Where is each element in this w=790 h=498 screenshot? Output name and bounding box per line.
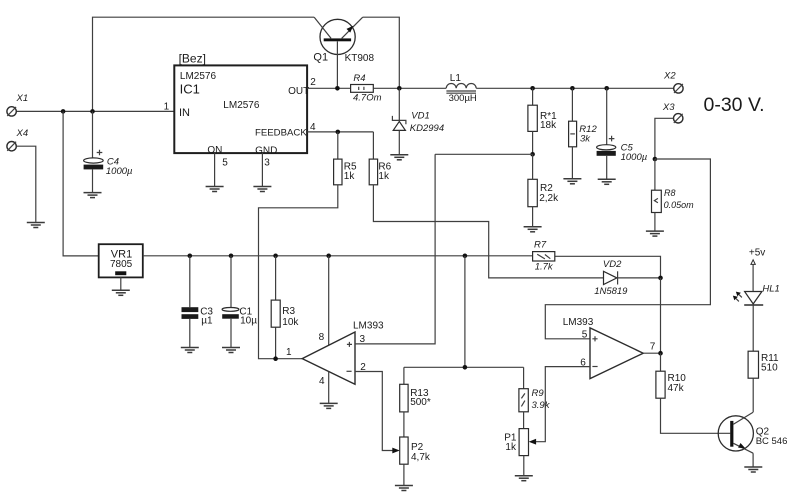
capacitor C3 [182, 256, 199, 347]
node R13 R9 line riser junction [463, 365, 468, 370]
op-amp U1B LM393 right [590, 328, 643, 379]
minus sign right op-amp pin6 [592, 366, 597, 368]
resistor R8 [652, 159, 662, 231]
resistor R12 [569, 88, 577, 178]
label C1 [239, 306, 257, 326]
svg-text:2: 2 [310, 77, 316, 88]
node R5 on feedback line [336, 130, 341, 135]
potentiometer P1 [519, 429, 528, 476]
svg-text:1k: 1k [344, 171, 356, 182]
svg-text:1k: 1k [378, 171, 390, 182]
node Q1 base on OUT line [335, 86, 340, 91]
wire pin2 to P2 wiper [355, 372, 400, 454]
resistor R2 [528, 154, 537, 226]
svg-text:LM2576: LM2576 [180, 71, 217, 82]
ground C5 [598, 179, 616, 184]
svg-text:1000µ: 1000µ [106, 166, 133, 177]
wire R5 bottom to comparator output pin1 [259, 185, 338, 359]
terminal X3 [674, 114, 683, 123]
svg-text:4: 4 [310, 122, 316, 133]
label R10 [668, 373, 687, 394]
wire L1 to X2 terminal [476, 87, 674, 89]
ground X4 [27, 223, 45, 228]
inductor L1 [446, 84, 476, 94]
svg-text:BC 546: BC 546 [756, 436, 788, 447]
svg-text:3k: 3k [580, 133, 591, 144]
wire X1 input line to IC1 IN pin [16, 110, 174, 112]
ground C3 [181, 348, 199, 353]
node R3 on rail [273, 254, 278, 259]
LED HL1 [733, 292, 763, 306]
ground VR1 [112, 290, 130, 295]
svg-text:IC1: IC1 [180, 81, 200, 96]
ground P2 [395, 486, 413, 491]
svg-text:VD2: VD2 [603, 259, 622, 270]
minus sign left op-amp pin2 [347, 370, 352, 372]
node C5 top [604, 86, 609, 91]
svg-text:X3: X3 [662, 102, 675, 113]
label C3 [200, 307, 213, 327]
capacitor C1 [222, 256, 239, 347]
wire divider junction to comparator pin3 riser [435, 153, 532, 155]
svg-text:4,7k: 4,7k [411, 452, 431, 463]
svg-text:IN: IN [179, 107, 190, 119]
svg-text:300µH: 300µH [449, 93, 477, 104]
ground R2 [524, 227, 542, 232]
svg-text:FEEDBACK: FEEDBACK [255, 128, 307, 139]
svg-text:1: 1 [286, 347, 292, 358]
transistor Q2 [718, 412, 753, 466]
wire X3 to R8 node [655, 118, 674, 159]
svg-text:4: 4 [319, 376, 325, 387]
op-amp U1A LM393 left [302, 332, 355, 384]
ground R12 [563, 179, 581, 184]
svg-text:4.7Om: 4.7Om [353, 92, 382, 103]
terminal X2 [674, 84, 683, 93]
node X1-VR1 junction [61, 109, 66, 114]
svg-text:5: 5 [222, 158, 228, 169]
svg-text:1k: 1k [505, 442, 517, 453]
wire pin4 to ground [328, 372, 330, 403]
ground P1 [515, 476, 533, 481]
node pin7 R10 junction [658, 351, 663, 356]
svg-text:KD2994: KD2994 [410, 123, 444, 134]
diode VD2 [604, 271, 661, 284]
node R13 riser on rail [463, 254, 468, 259]
svg-text:510: 510 [761, 363, 778, 374]
label R6 [378, 162, 391, 183]
resistor R3 [271, 256, 280, 359]
label P2 [411, 442, 431, 463]
power +5v arrow [751, 260, 755, 292]
diode VD1 [392, 88, 406, 154]
node X1-C4-rail junction [90, 109, 95, 114]
wire X4 to ground [16, 146, 36, 222]
svg-text:7: 7 [650, 341, 656, 352]
capacitor C4 [84, 111, 104, 192]
svg-text:1N5819: 1N5819 [594, 286, 628, 297]
node VD1 top junction [397, 86, 402, 91]
capacitor C5 [597, 88, 616, 179]
resistor R6 [369, 132, 377, 185]
transistor Q1 [314, 17, 363, 88]
wire IC1 ON pin to ground [214, 153, 216, 186]
node R*1 top [530, 86, 535, 91]
wire IC1 GND pin to ground [261, 153, 263, 186]
svg-text:X4: X4 [16, 128, 29, 139]
svg-text:R8: R8 [664, 188, 676, 198]
terminal X4 [7, 142, 16, 151]
wire top rail right segment from Q1 emitter to R4 output node [363, 17, 400, 88]
svg-text:GND: GND [255, 146, 277, 157]
wire pin8 drop to op-amp [328, 256, 330, 345]
wire X1 node down to VR1 input [63, 111, 99, 256]
svg-text:R9: R9 [532, 388, 545, 399]
ground C4 [84, 193, 102, 198]
wire pin6 to P1 wiper [529, 367, 590, 445]
svg-text:500*: 500* [410, 397, 431, 408]
wire R8 node to comparator pin5 sense line [545, 159, 710, 339]
regulator VR1 box [99, 244, 143, 277]
wire FEEDBACK line to R5 R6 [307, 131, 373, 133]
svg-text:HL1: HL1 [762, 283, 779, 294]
svg-text:R7: R7 [534, 240, 547, 251]
svg-text:3.9k: 3.9k [532, 400, 551, 411]
resistor R5 [334, 132, 342, 185]
svg-text:µ1: µ1 [201, 316, 213, 327]
wire 5V riser to R13 R9 line [464, 256, 466, 367]
resistor R7 [533, 252, 555, 261]
svg-text:X2: X2 [663, 71, 676, 82]
node pin8 on rail [326, 254, 331, 259]
resistor R4 [351, 85, 374, 93]
label C4 value [106, 156, 133, 177]
resistor R13 [400, 367, 408, 437]
svg-text:3: 3 [264, 158, 270, 169]
svg-text:[Bez]: [Bez] [179, 52, 206, 66]
plus sign left op-amp pin3 [347, 342, 352, 347]
ground VD1 [390, 155, 408, 160]
wire VD2 junction down to pin7 node [660, 278, 662, 353]
ground IC1 GND [253, 187, 271, 192]
op-amp IC1 LM2576 box [174, 65, 307, 153]
ground Q2 [744, 467, 762, 472]
label C5 [621, 142, 648, 163]
ground C1 [222, 348, 240, 353]
svg-text:10µ: 10µ [240, 316, 257, 327]
svg-text:18k: 18k [540, 120, 557, 131]
svg-text:KT908: KT908 [345, 53, 375, 64]
node VD2 cathode junction [658, 276, 663, 281]
resistor R9 [519, 367, 528, 428]
svg-text:7805: 7805 [110, 259, 133, 270]
wire pin3 to divider riser [355, 154, 435, 344]
svg-text:5: 5 [582, 329, 588, 340]
node C1 on rail [229, 254, 234, 259]
svg-text:R3: R3 [282, 306, 295, 317]
ground IC1 ON [206, 187, 224, 192]
svg-text:LM2576: LM2576 [223, 100, 260, 111]
label R13 [410, 388, 431, 408]
plus sign right op-amp pin5 [592, 336, 597, 341]
label P1 [504, 432, 517, 453]
wire R6 bottom to VD2 anode [373, 185, 603, 278]
terminal X1 [7, 107, 16, 116]
resistor R11 [748, 305, 758, 412]
potentiometer P2 [400, 437, 408, 485]
svg-text:Q1: Q1 [313, 51, 328, 63]
wire 5V rail R7 to VD2 corner [555, 256, 661, 278]
svg-text:8: 8 [319, 332, 325, 343]
node R12 top [570, 86, 575, 91]
svg-text:VD1: VD1 [411, 111, 429, 122]
resistor R*1 [528, 88, 537, 154]
svg-text:1.7k: 1.7k [535, 261, 554, 272]
label R9 [532, 388, 551, 411]
svg-text:X1: X1 [16, 93, 29, 104]
wire 5V rail VR1 to R7 [143, 255, 533, 257]
label R5 [344, 162, 357, 183]
node R*1 R2 divider junction [530, 152, 535, 157]
svg-text:1: 1 [164, 101, 170, 112]
wire pin7 output [643, 352, 660, 354]
svg-text:0.05om: 0.05om [664, 200, 695, 210]
node pin1 output junction with R3 [273, 356, 278, 361]
wire R4 to L1 [373, 87, 446, 89]
ground op-amp pin4 [320, 403, 338, 408]
wire top rail from X1 node up and across to Q1 collector [93, 17, 315, 111]
svg-text:OUT: OUT [288, 86, 309, 97]
wire OUT line IC1 to R4 [307, 87, 351, 89]
label R3 [282, 306, 299, 328]
node C3 on rail [188, 254, 193, 259]
wire R13 to R9 top line [404, 366, 524, 368]
label R11 [761, 353, 779, 374]
svg-text:+5v: +5v [749, 247, 765, 258]
svg-text:1000µ: 1000µ [621, 152, 648, 163]
svg-text:10k: 10k [282, 317, 299, 328]
resistor R10 [656, 353, 730, 433]
svg-text:LM393: LM393 [563, 317, 594, 328]
wire VR1 to ground [120, 277, 122, 289]
svg-text:47k: 47k [668, 383, 685, 394]
svg-text:LM393: LM393 [353, 320, 384, 331]
svg-text:0-30 V.: 0-30 V. [704, 94, 765, 116]
node X3 R8 junction [653, 157, 658, 162]
svg-text:L1: L1 [450, 73, 462, 84]
svg-text:2,2k: 2,2k [539, 193, 559, 204]
ground R8 [646, 231, 664, 236]
svg-text:R4: R4 [353, 73, 365, 84]
